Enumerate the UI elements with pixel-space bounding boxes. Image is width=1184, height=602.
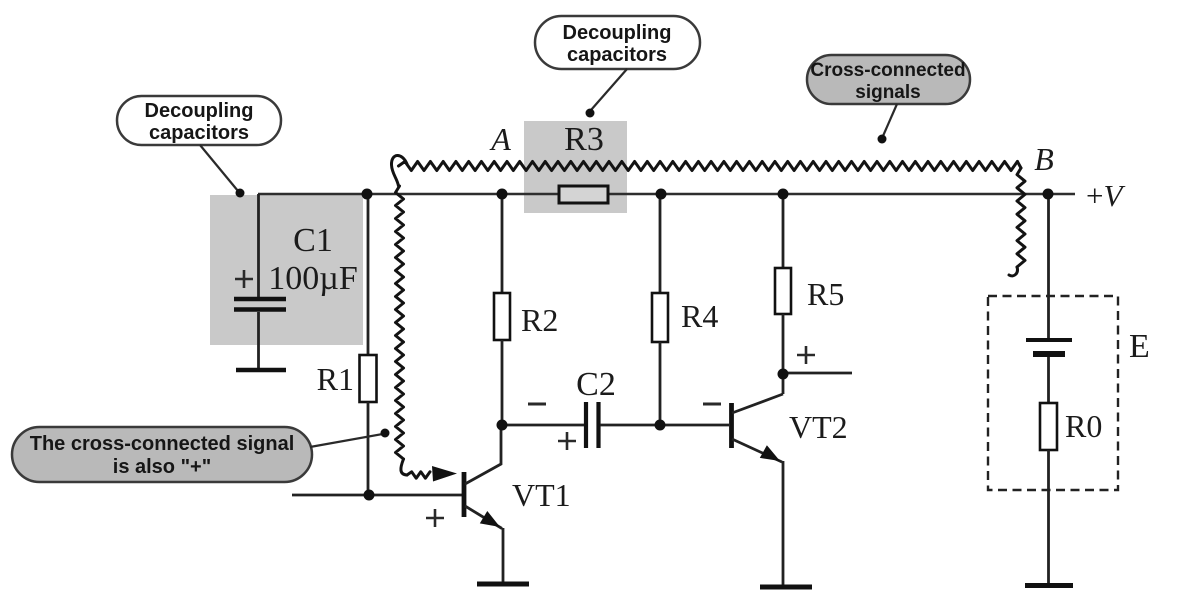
- svg-text:R1: R1: [317, 361, 354, 397]
- battery E: [1026, 340, 1072, 354]
- C2 plus label: [558, 432, 576, 450]
- transistor VT2: [732, 394, 784, 585]
- wire R2 node to C2: [502, 424, 584, 427]
- node junction dot rail-R5: [778, 189, 789, 200]
- leader line callout 4: [310, 434, 383, 447]
- svg-text:R0: R0: [1065, 408, 1102, 444]
- VT2 output plus label: [797, 346, 815, 364]
- leader line callout 3: [883, 104, 897, 136]
- svg-text:R3: R3: [564, 121, 604, 158]
- C1 plus polarity label: [235, 270, 253, 288]
- capacitor C2: [586, 402, 599, 448]
- ground under C1: [236, 368, 286, 373]
- wire R5 lower to VT2 collector: [782, 314, 785, 394]
- transistor VT1: [464, 425, 503, 582]
- wire cross-connected vertical zigzag left: [396, 186, 404, 459]
- svg-text:C1: C1: [293, 222, 333, 259]
- node junction dot rail-B: [1043, 189, 1054, 200]
- node junction dot rail-R2: [497, 189, 508, 200]
- svg-text:C2: C2: [576, 366, 616, 403]
- svg-text:B: B: [1034, 141, 1054, 177]
- wire R1 upper: [367, 194, 370, 355]
- svg-text:+V: +V: [1086, 178, 1125, 213]
- wire VT2 plus output line: [784, 372, 852, 375]
- wire R2 lower: [501, 340, 504, 425]
- wire VT1 base line: [292, 494, 462, 497]
- svg-text:A: A: [489, 121, 511, 157]
- wire R1 lower: [367, 402, 370, 495]
- node junction dot VT1 collector: [497, 420, 508, 431]
- arrowhead into VT1 base: [432, 466, 457, 482]
- VT1 emitter plus label: [426, 509, 444, 527]
- wire C2 to R4 node: [600, 424, 660, 427]
- wire zigzag bottom-right hook: [1009, 267, 1017, 276]
- svg-text:Cross-connected: Cross-connected: [810, 60, 965, 81]
- resistor R5: [775, 268, 791, 314]
- resistor R3: [559, 186, 608, 203]
- wire +V rail: [258, 193, 1075, 196]
- callout bubble 4: The cross-connected signal is also "+" (gray): [12, 427, 312, 482]
- svg-text:is also "+": is also "+": [113, 456, 211, 478]
- wire zigzag top-right corner at B: [1017, 162, 1021, 169]
- svg-text:Decoupling: Decoupling: [145, 100, 254, 122]
- leader dot callout 2: [586, 109, 595, 118]
- wire R4 upper: [659, 194, 662, 293]
- wire C1 top vertical: [257, 194, 260, 297]
- resistor R4: [652, 293, 668, 342]
- dashed box around E and R0: [988, 296, 1118, 490]
- svg-text:VT2: VT2: [789, 409, 848, 445]
- svg-text:R4: R4: [681, 298, 718, 334]
- svg-text:signals: signals: [855, 82, 920, 103]
- wire zigzag bottom-left curl: [401, 459, 407, 475]
- svg-text:R5: R5: [807, 276, 844, 312]
- svg-text:E: E: [1129, 328, 1150, 365]
- svg-text:capacitors: capacitors: [149, 122, 249, 144]
- resistor R1: [360, 355, 377, 402]
- callout bubble 2: Decoupling capacitors (top middle): [535, 16, 700, 69]
- node junction dot rail-R1: [362, 189, 373, 200]
- leader line callout 2: [591, 69, 627, 110]
- ground under E branch: [1025, 583, 1073, 588]
- resistor R2: [494, 293, 510, 340]
- node junction dot R1-base: [364, 490, 375, 501]
- svg-text:VT1: VT1: [512, 477, 571, 513]
- capacitor C1: [234, 299, 286, 310]
- wire C1 bottom vertical: [257, 312, 260, 368]
- wire cross-connected vertical zigzag right: [1017, 168, 1025, 267]
- leader dot callout 1: [236, 189, 245, 198]
- wire cross-connected horizontal zigzag A to B: [399, 162, 1018, 171]
- gray highlight box around R3: [524, 121, 627, 213]
- wire R0 lower: [1047, 450, 1050, 583]
- ground under VT2: [760, 585, 812, 590]
- gray highlight box around C1: [210, 195, 363, 345]
- wire battery top vertical: [1047, 194, 1050, 338]
- wire zigzag top-left curl at A: [391, 155, 407, 186]
- callout bubble 1: Decoupling capacitors (left): [117, 96, 281, 145]
- leader line callout 1: [200, 145, 238, 191]
- wire battery to R0: [1047, 357, 1050, 403]
- wire zigzag arrow tail into VT1 base: [407, 472, 430, 478]
- node junction dot VT2 collector: [778, 369, 789, 380]
- wire R5 upper: [782, 194, 785, 268]
- svg-text:capacitors: capacitors: [567, 44, 667, 66]
- wire VT2 base line: [660, 424, 729, 427]
- node junction dot VT2 base: [655, 420, 666, 431]
- resistor R0: [1040, 403, 1057, 450]
- svg-text:R2: R2: [521, 302, 558, 338]
- wire R4 lower: [659, 342, 662, 425]
- wire R2 upper: [501, 194, 504, 293]
- leader dot callout 4: [381, 429, 390, 438]
- callout bubble 3: Cross-connected signals (gray): [807, 55, 970, 104]
- ground under VT1: [477, 582, 529, 587]
- svg-text:The cross-connected signal: The cross-connected signal: [30, 433, 295, 455]
- leader dot callout 3: [878, 135, 887, 144]
- svg-text:100µF: 100µF: [268, 260, 358, 297]
- node junction dot rail-R4: [656, 189, 667, 200]
- VT2 base minus label: [703, 403, 721, 406]
- C2 minus label: [528, 403, 546, 406]
- svg-text:Decoupling: Decoupling: [563, 22, 672, 44]
